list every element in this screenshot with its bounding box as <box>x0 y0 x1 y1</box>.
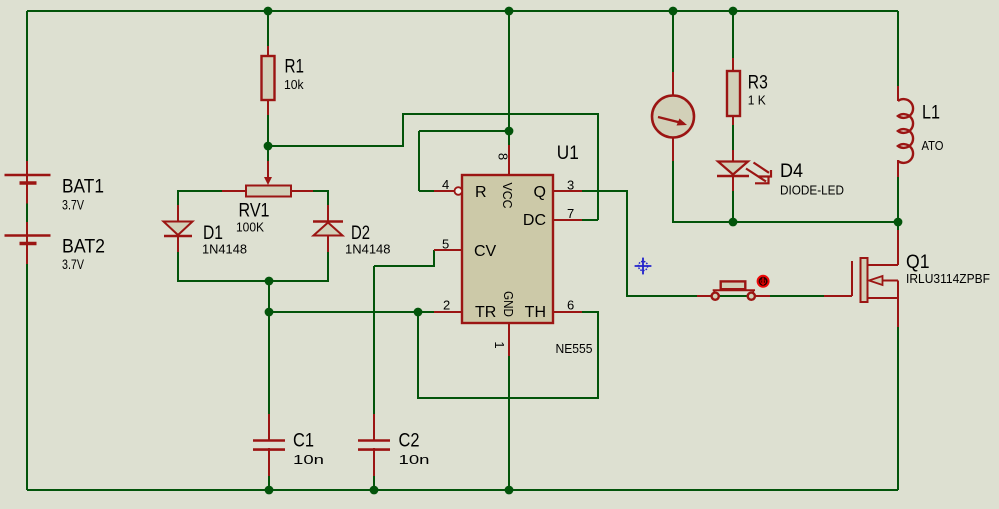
svg-text:BAT1: BAT1 <box>62 176 104 198</box>
svg-text:100K: 100K <box>236 219 264 234</box>
svg-text:U1: U1 <box>557 142 579 164</box>
svg-text:Q1: Q1 <box>906 251 930 273</box>
svg-text:Q: Q <box>534 184 546 201</box>
svg-text:BAT2: BAT2 <box>62 235 105 257</box>
svg-text:CV: CV <box>474 243 497 260</box>
svg-text:DC: DC <box>523 212 546 229</box>
svg-text:3: 3 <box>567 178 574 193</box>
svg-text:D1: D1 <box>203 222 223 244</box>
svg-text:8: 8 <box>496 153 511 160</box>
svg-text:3.7V: 3.7V <box>62 196 84 212</box>
svg-text:C1: C1 <box>293 430 314 452</box>
svg-text:3.7V: 3.7V <box>62 256 84 272</box>
svg-text:L1: L1 <box>922 102 940 124</box>
svg-text:DIODE-LED: DIODE-LED <box>780 183 844 198</box>
svg-text:D2: D2 <box>351 222 370 244</box>
svg-text:1: 1 <box>492 341 507 348</box>
svg-text:6: 6 <box>567 298 574 313</box>
svg-text:ATO: ATO <box>922 138 944 153</box>
svg-text:1N4148: 1N4148 <box>345 242 391 257</box>
svg-text:R: R <box>475 184 487 201</box>
svg-text:1N4148: 1N4148 <box>202 242 247 257</box>
svg-text:GND: GND <box>501 291 516 317</box>
svg-text:TH: TH <box>525 304 546 321</box>
svg-text:10k: 10k <box>284 77 304 92</box>
svg-text:10n: 10n <box>293 452 324 467</box>
svg-text:7: 7 <box>567 206 574 221</box>
svg-text:2: 2 <box>443 298 450 313</box>
svg-text:4: 4 <box>442 177 449 192</box>
svg-text:C2: C2 <box>399 430 420 452</box>
svg-text:R1: R1 <box>285 56 305 78</box>
svg-text:D4: D4 <box>780 160 803 182</box>
svg-text:5: 5 <box>442 236 449 251</box>
svg-text:VCC: VCC <box>500 183 515 209</box>
svg-text:IRLU3114ZPBF: IRLU3114ZPBF <box>906 271 990 286</box>
svg-text:R3: R3 <box>748 72 768 94</box>
svg-text:RV1: RV1 <box>239 200 270 222</box>
svg-text:1 K: 1 K <box>748 93 766 108</box>
svg-text:NE555: NE555 <box>556 341 593 356</box>
svg-text:TR: TR <box>475 304 496 321</box>
svg-text:10n: 10n <box>399 452 430 467</box>
